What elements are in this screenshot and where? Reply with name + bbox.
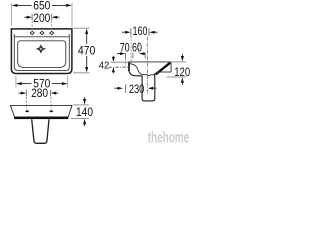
watermark thehome [148,130,190,148]
dim 470 line + arrows [86,34,88,44]
basin underside trapezoid [10,105,72,117]
svg-text:470: 470 [78,44,96,58]
deck top line [129,61,172,63]
dim 120 bottom extension [166,76,186,78]
dim 280 ticks [25,90,27,97]
dim 570 tick left [15,76,17,87]
tap hole right [50,31,54,34]
back apron bottom [158,71,172,73]
front lip / apron edge [128,62,130,71]
svg-text:160: 160 [133,24,148,38]
dim 570 line + arrows [17,83,66,85]
dim 570 tick right [67,76,69,87]
svg-text:70: 70 [120,40,130,54]
dim 120 arrows (outside) [181,54,183,57]
dim 160 arrows (outside) [122,31,126,33]
bowl [18,41,66,68]
dim 650 extension tick left [11,3,13,26]
dim 470 extension top [73,27,89,29]
dim 70/60 arrow row [117,53,121,55]
dim 230 arrow left [114,87,118,89]
mounting hole left [25,110,30,112]
tap hole center [40,31,44,34]
svg-text:140: 140 [76,105,93,119]
tap deck wedge (thick slab) [156,63,171,75]
dim 42 top extension [110,61,128,63]
step under deck [154,72,158,75]
tick at 125.6 [125,53,127,59]
dim 140 extension top [73,104,89,106]
drain symbol [37,45,45,52]
tick at 132.9 [132,53,134,59]
svg-text:120: 120 [174,65,190,79]
dim 140 arrows (outside) [84,97,86,100]
svg-text:60: 60 [132,40,142,54]
mounting hole right [49,110,54,112]
tick at 145.2 [144,53,146,59]
dashed ref line x=125.6 down [125,58,127,66]
semi-pedestal front [32,119,49,143]
svg-text:thehome: thehome [148,130,190,147]
dim 200 dashed extensions to tap holes [31,21,33,31]
dim 470 extension bottom [73,72,89,74]
svg-text:200: 200 [33,11,50,25]
back edge [170,62,172,72]
dim 200 ticks [31,14,33,21]
deck line [14,36,69,38]
tap hole left [30,31,34,34]
svg-text:42: 42 [99,60,110,71]
trapezoid bottom thick bar [14,117,68,119]
basin mid (inner offset) line [14,34,69,70]
dash-dot centerline x=147.3 [146,37,148,95]
dim 230 tick left [125,84,127,93]
dim 140 extension bottom [71,117,89,119]
svg-text:280: 280 [31,86,48,100]
dim 120 top extension [172,61,186,63]
dim 200 arrows (outside, pointing inward) [24,16,59,18]
dim 42 arrows [112,56,114,58]
dashed ref line x=138.9 [138,42,140,54]
dim 280 dashed extensions to holes [26,97,28,109]
svg-text:230: 230 [129,82,145,96]
bowl inner wall and bottom [130,64,154,76]
dim 42 dash-dot line [109,66,130,68]
basin outer body [11,29,72,74]
dim 280 arrows (outside pointing inward) [19,92,59,94]
dim 160 ticks [130,28,132,36]
dim 650 line + arrows [13,4,71,6]
dim 230 arrow right [151,87,157,89]
dim 650 extension tick right [71,3,73,28]
bowl underside + pedestal column [129,71,155,101]
dashed ref line x=131.2 [130,36,132,63]
